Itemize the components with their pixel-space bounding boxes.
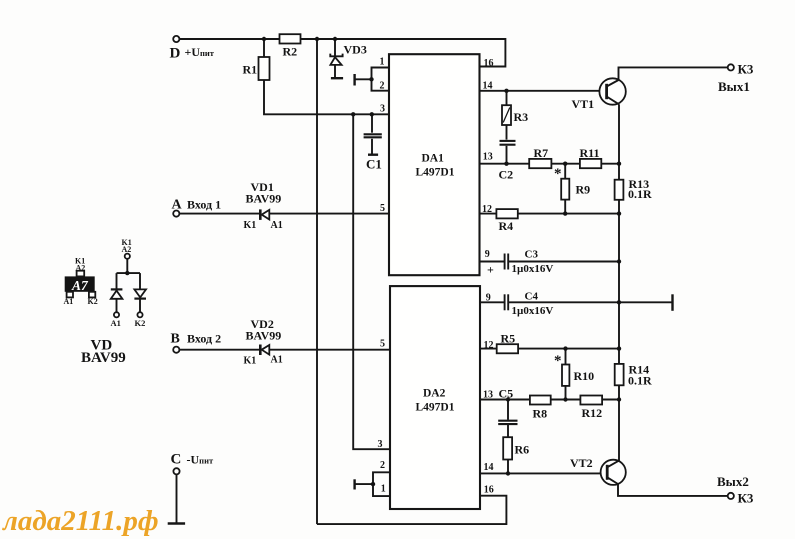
resistor R11: [580, 146, 602, 168]
node junction pin3/link: [351, 112, 355, 116]
wire C4 to right stub: [509, 301, 673, 303]
svg-text:R1: R1: [243, 63, 258, 77]
wire VT2 emitter to output: [618, 484, 727, 496]
svg-text:R2: R2: [283, 45, 298, 59]
svg-text:A2: A2: [122, 245, 132, 254]
svg-text:*: *: [554, 353, 562, 369]
label VD BAV99: [81, 338, 126, 367]
pin 14 DA2: [484, 462, 494, 473]
wire bottom rail to DA2 pin 16: [317, 496, 506, 524]
svg-text:5: 5: [380, 203, 385, 214]
wire DA1 pins 1-2 bracket: [355, 68, 389, 91]
wire R10 top: [565, 349, 567, 365]
svg-text:*: *: [554, 166, 562, 182]
wire -Uпит terminal down: [176, 475, 178, 523]
svg-text:2: 2: [380, 460, 385, 471]
svg-text:C: C: [171, 452, 182, 468]
svg-text:R7: R7: [534, 146, 549, 160]
wire +U rail right to DA1 pin 16: [301, 39, 506, 67]
svg-text:R4: R4: [499, 219, 514, 233]
svg-text:R3: R3: [514, 110, 529, 124]
node junction pin3/C1: [370, 112, 374, 116]
svg-text:12: 12: [482, 204, 492, 215]
node junction R4/R9: [563, 211, 567, 215]
svg-text:0.1R: 0.1R: [628, 187, 652, 201]
svg-text:VT1: VT1: [572, 97, 595, 111]
pin 9 DA1: [485, 249, 490, 260]
wire DA1 pin 12 to R4: [480, 213, 497, 215]
wire input B right to DA2 pin 5: [270, 349, 390, 351]
BAV99 package drawing: [64, 256, 98, 306]
pin 3 DA1: [380, 104, 385, 115]
svg-text:VD3: VD3: [344, 43, 367, 57]
wire input B left: [179, 349, 259, 351]
wire DA2 pin 12 to R5: [480, 348, 497, 350]
transistor VT2: [570, 456, 626, 485]
wire R10 bottom: [565, 386, 567, 400]
svg-text:Вход 2: Вход 2: [187, 332, 221, 346]
svg-text:C3: C3: [525, 248, 539, 260]
svg-text:A1: A1: [271, 355, 283, 366]
svg-text:5: 5: [380, 339, 385, 350]
node junction R4/R13: [617, 211, 621, 215]
wire R3 to C2: [506, 125, 508, 140]
wire DA2 pin 9 to C4: [480, 301, 504, 303]
wire -Uпит end bar: [168, 522, 185, 524]
wire C3 to emitter line: [509, 261, 619, 263]
pin 5 DA2: [380, 339, 385, 350]
svg-text:Вых1: Вых1: [718, 79, 750, 94]
svg-text:R5: R5: [501, 332, 516, 346]
node junction C4: [617, 300, 621, 304]
wire C5 top: [507, 400, 509, 420]
zener diode VD3: [330, 39, 367, 78]
svg-text:3: 3: [380, 104, 385, 115]
svg-text:K2: K2: [135, 318, 146, 328]
svg-text:-Uпит: -Uпит: [187, 453, 214, 467]
svg-text:9: 9: [485, 249, 490, 260]
wire C5 to R6: [507, 425, 509, 437]
wire stub bar DA1 pin1-2: [353, 74, 355, 86]
node junction R7/R11/R9: [563, 162, 567, 166]
wire stub bar right of C4: [671, 294, 673, 311]
pin 13 DA1: [483, 152, 493, 163]
wire R1 top: [263, 39, 265, 57]
wire DA1 pin 14 to VT1 base: [480, 90, 600, 92]
svg-text:BAV99: BAV99: [81, 350, 126, 366]
svg-text:VT2: VT2: [570, 456, 593, 470]
resistor R5: [497, 332, 518, 354]
svg-text:Вых2: Вых2: [717, 474, 749, 489]
wire R6 to pin 14 line: [507, 460, 509, 474]
svg-text:BAV99: BAV99: [246, 329, 282, 343]
BAV99 schematic diode 2 (K2): [134, 289, 146, 328]
svg-text:R11: R11: [580, 146, 600, 160]
capacitor C3 1µ0x16V: [487, 248, 553, 276]
node junction R5/R14: [617, 346, 621, 350]
BAV99 schematic symbol: common terminal K1/A2: [117, 238, 141, 289]
node junction BAV99 common: [125, 271, 129, 275]
terminal C -Uпит: [171, 452, 214, 475]
wire DA2 pin 14 to VT2 base: [480, 472, 601, 474]
svg-text:1µ0х16V: 1µ0х16V: [512, 263, 554, 275]
svg-text:A1: A1: [111, 318, 121, 328]
wire VT1 emitter down: [618, 104, 620, 179]
svg-text:A2: A2: [76, 263, 86, 272]
pin 2 DA2: [380, 460, 385, 471]
svg-text:0.1R: 0.1R: [628, 374, 652, 388]
svg-text:R10: R10: [574, 369, 595, 383]
svg-text:C5: C5: [499, 387, 514, 401]
resistor R8: [530, 396, 551, 421]
resistor R9: [554, 166, 590, 200]
capacitor C2: [499, 141, 516, 182]
node junction pin13/C5: [506, 397, 510, 401]
svg-text:13: 13: [483, 152, 493, 163]
wire R1 bottom to DA1 pin 3: [264, 80, 389, 114]
svg-text:K1: K1: [244, 356, 257, 367]
pin 13 DA2: [483, 390, 493, 401]
pin 16 DA2: [484, 485, 494, 496]
transistor VT1: [572, 78, 626, 111]
resistor R4: [496, 209, 517, 233]
svg-text:14: 14: [483, 81, 493, 92]
svg-text:1µ0х16V: 1µ0х16V: [512, 305, 554, 317]
resistor R14 0.1R: [615, 363, 652, 388]
op-amp U2: IC DA2 L497D1: [390, 286, 480, 509]
svg-text:+Uпит: +Uпит: [185, 45, 215, 59]
resistor R6: [503, 437, 529, 459]
wire R3 top: [506, 91, 508, 105]
node junction rail/R1: [262, 37, 266, 41]
wire vertical bus: [316, 39, 318, 524]
svg-text:16: 16: [484, 485, 494, 496]
capacitor C4 1µ0x16V: [505, 291, 554, 318]
node junction pin14/R3: [504, 89, 508, 93]
svg-text:2: 2: [380, 81, 385, 92]
svg-text:12: 12: [484, 340, 494, 351]
pin 5 DA1: [380, 203, 385, 214]
svg-text:BAV99: BAV99: [246, 192, 282, 206]
svg-text:D: D: [170, 46, 181, 62]
node junction R11/emitter: [617, 162, 621, 166]
wire R8 to R12: [551, 399, 581, 401]
svg-text:C1: C1: [366, 157, 382, 172]
pin 1 DA2: [381, 483, 386, 494]
wire C2 to pin 13: [506, 146, 508, 164]
wire DA2 pin 13 to R8: [480, 399, 530, 401]
wire R5 to collector line: [518, 348, 619, 350]
pin 2 DA1: [380, 81, 385, 92]
wire link DA1 pin3 to DA2 pin3: [353, 114, 390, 449]
wire input A right to DA1 pin 5: [270, 213, 389, 215]
capacitor C5: [498, 387, 517, 425]
node junction C3: [617, 259, 621, 263]
svg-text:A7: A7: [71, 278, 89, 293]
svg-text:R12: R12: [582, 406, 603, 420]
svg-text:R8: R8: [533, 407, 548, 421]
pin 3 DA2: [378, 439, 383, 450]
svg-text:+: +: [487, 263, 494, 277]
wire R9 bottom: [564, 200, 566, 214]
pin 1 DA1: [380, 57, 385, 68]
node junction DA2 pins2-1 bracket: [371, 482, 375, 486]
node junction rail/bus: [315, 37, 319, 41]
node junction R5/R10: [563, 346, 567, 350]
wire R11 to emitter line: [601, 163, 619, 165]
svg-text:DA2: DA2: [423, 388, 446, 400]
svg-text:3: 3: [378, 439, 383, 450]
node junction pin14/R6: [506, 471, 510, 475]
svg-text:1: 1: [381, 483, 386, 494]
wire R7 to R11: [551, 163, 580, 165]
svg-text:R6: R6: [515, 443, 530, 457]
wire DA2 pins 2-1 bracket: [355, 472, 390, 496]
wire VT1 collector to output: [619, 67, 728, 80]
terminal К3 Вых1: [718, 62, 754, 95]
svg-text:R9: R9: [576, 183, 591, 197]
svg-text:13: 13: [483, 390, 493, 401]
svg-text:14: 14: [484, 462, 494, 473]
BAV99 schematic diode 1 (A1): [111, 289, 123, 328]
pin 12 DA2: [484, 340, 494, 351]
node junction pin13/C2: [504, 162, 508, 166]
svg-text:L497D1: L497D1: [416, 167, 455, 179]
wire DA1 pin 9 to C3: [480, 261, 505, 263]
svg-text:C2: C2: [499, 168, 514, 182]
resistor R10: [554, 353, 594, 386]
wire DA1 pin 13 to R7: [480, 163, 530, 165]
op-amp U1: IC DA1 L497D1: [389, 54, 480, 275]
diode VD1 BAV99: [244, 180, 283, 231]
svg-text:C4: C4: [525, 291, 539, 303]
svg-text:DA1: DA1: [422, 153, 445, 165]
watermark лада2111.рф: [2, 505, 159, 537]
svg-text:9: 9: [486, 293, 491, 304]
terminal D +Uпит: [170, 36, 215, 62]
resistor R1: [243, 57, 270, 80]
node junction rail/VD3: [333, 37, 337, 41]
wire R4 to emitter line: [518, 213, 619, 215]
svg-text:K1: K1: [244, 220, 257, 231]
wire R12 to collector line: [602, 399, 619, 401]
wire R13 to C3 node and down: [618, 200, 620, 364]
svg-text:K2: K2: [88, 297, 98, 306]
svg-text:16: 16: [484, 58, 494, 69]
wire +U rail left: [179, 38, 279, 40]
resistor R13 0.1R: [615, 177, 652, 201]
node junction R12/R14: [617, 397, 621, 401]
wire R14 to VT2 collector: [618, 385, 620, 460]
node junction DA1 pins1-2 bracket: [369, 77, 373, 81]
resistor R7: [529, 146, 551, 168]
terminal Вых2 К3: [717, 474, 754, 505]
svg-text:К3: К3: [738, 490, 754, 505]
svg-text:1: 1: [380, 57, 385, 68]
resistor R12: [580, 396, 602, 421]
svg-text:A: A: [172, 198, 183, 213]
wire input A left: [179, 213, 259, 215]
terminal B Вход 2: [171, 332, 222, 353]
svg-text:A1: A1: [271, 220, 283, 231]
diode VD2 BAV99: [244, 317, 283, 367]
svg-text:L497D1: L497D1: [416, 402, 455, 414]
svg-text:A1: A1: [64, 297, 74, 306]
svg-text:B: B: [171, 332, 180, 347]
capacitor C1: [364, 114, 382, 171]
wire stub bar DA2 pin2-1: [353, 479, 355, 489]
svg-text:Вход 1: Вход 1: [187, 198, 221, 212]
pin 14 DA1: [483, 81, 493, 92]
svg-text:К3: К3: [738, 62, 754, 77]
svg-text:лада2111.рф: лада2111.рф: [2, 505, 159, 537]
wire R9 top: [564, 164, 566, 179]
resistor R3: [502, 105, 528, 125]
resistor R2: [280, 34, 301, 58]
node junction R8/R12/R10: [563, 397, 567, 401]
terminal A Вход 1: [172, 198, 222, 217]
pin 9 DA2: [486, 293, 491, 304]
pin 12 DA1: [482, 204, 492, 215]
pin 16 DA1: [484, 58, 494, 69]
